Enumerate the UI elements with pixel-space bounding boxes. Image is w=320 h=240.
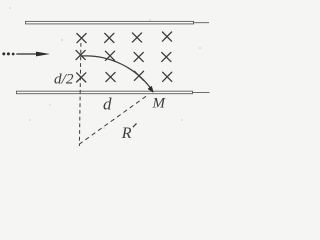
field cross row1 col3 bbox=[132, 33, 141, 42]
svg-text:d/2: d/2 bbox=[54, 72, 74, 88]
field cross row3 col3 bbox=[134, 71, 143, 80]
field cross row2 col4 bbox=[162, 52, 171, 61]
dashed vertical line through entry point bbox=[79, 43, 81, 146]
field cross row1 col4 bbox=[162, 32, 171, 41]
bottom plate bbox=[17, 91, 210, 94]
scan speck noise bbox=[9, 7, 201, 129]
field cross row1 col1 bbox=[77, 34, 86, 43]
svg-text:R: R bbox=[121, 125, 132, 142]
field cross row1 col2 bbox=[105, 33, 114, 42]
dashed radius line from M bbox=[80, 96, 146, 144]
field cross row3 col2 bbox=[106, 72, 115, 81]
field cross row3 col1 bbox=[77, 73, 86, 82]
top plate bbox=[26, 21, 210, 24]
trajectory arrowhead at M bbox=[148, 87, 153, 92]
incoming velocity arrow bbox=[16, 52, 50, 57]
incoming particle dotted trail bbox=[2, 52, 14, 55]
svg-text:M: M bbox=[152, 96, 167, 112]
field cross row2 col2 bbox=[105, 51, 114, 60]
field cross row2 col1 (entry point) bbox=[76, 50, 85, 59]
field cross row2 col3 bbox=[134, 52, 143, 61]
curved trajectory arc to M bbox=[81, 56, 153, 91]
svg-text:d: d bbox=[103, 95, 112, 114]
field cross row3 col4 bbox=[163, 72, 172, 81]
